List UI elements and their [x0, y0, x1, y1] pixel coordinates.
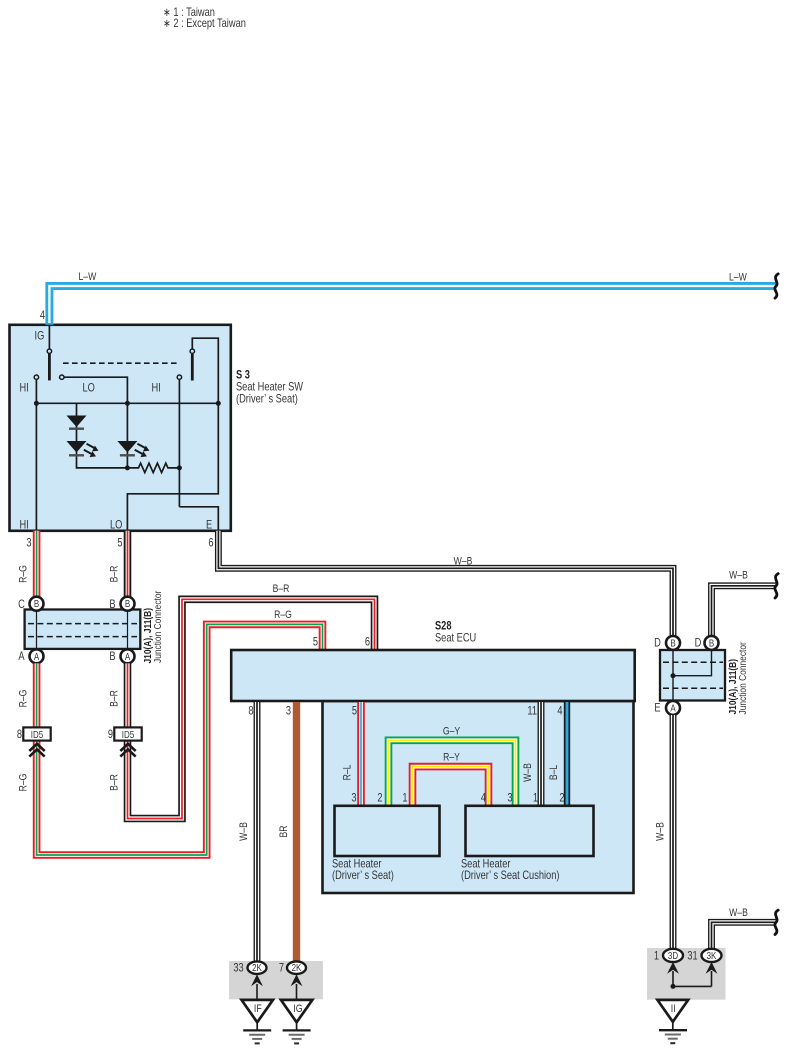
wire from right contact to E-column [192, 338, 218, 403]
pin circle B (B) [121, 597, 135, 611]
svg-text:W–B: W–B [729, 907, 748, 919]
svg-text:11: 11 [527, 705, 537, 718]
svg-text:LO: LO [110, 519, 122, 532]
svg-text:B–R: B–R [273, 583, 290, 595]
wire LO contact to LED2 column [64, 377, 127, 468]
svg-text:3: 3 [286, 705, 291, 718]
svg-text:3: 3 [351, 792, 356, 805]
IG switch blade [48, 354, 51, 381]
svg-text:R–G: R–G [18, 690, 30, 708]
wire R-G ID5 to ECU pin5 [37, 624, 323, 855]
chevron arrows below ID5 9 [120, 744, 135, 757]
ground symbol IF [243, 1022, 271, 1043]
node dot rail-E [216, 401, 221, 406]
svg-text:A: A [18, 650, 24, 663]
svg-text:D: D [695, 637, 702, 650]
wire W-B ECU pin11 to cushion pin1 [538, 702, 545, 806]
svg-text:6: 6 [365, 636, 370, 649]
connector oval 33 2K [248, 961, 267, 974]
svg-text:3D: 3D [668, 950, 679, 961]
svg-text:1: 1 [533, 792, 538, 805]
svg-text:B–R: B–R [109, 774, 121, 791]
wire W-B ECU pin8 to ground 2K [254, 702, 261, 962]
svg-text:2: 2 [559, 792, 564, 805]
ground symbol II [659, 1022, 687, 1043]
svg-text:G–Y: G–Y [443, 726, 461, 738]
svg-text:R–G: R–G [18, 565, 30, 583]
svg-text:ID5: ID5 [31, 729, 43, 740]
svg-text:4: 4 [40, 309, 45, 322]
break symbol W-B mid right [775, 574, 778, 598]
svg-text:3: 3 [26, 537, 31, 550]
pin circle D(B) 2 [705, 636, 719, 650]
right switch contact [190, 349, 194, 353]
svg-text:2K: 2K [292, 962, 302, 973]
svg-text:5: 5 [117, 537, 122, 550]
svg-text:3K: 3K [707, 950, 717, 961]
seat heater assembly box [323, 701, 634, 893]
svg-text:4: 4 [481, 792, 486, 805]
node dot rail-HI [34, 401, 39, 406]
svg-text:7: 7 [279, 962, 284, 975]
svg-text:II: II [671, 1003, 676, 1015]
svg-text:33: 33 [233, 962, 243, 975]
svg-text:(Driver’ s Seat): (Driver’ s Seat) [236, 393, 298, 406]
break symbol L-W right [775, 274, 778, 298]
arrow up left [256, 984, 258, 1000]
HI contact right [177, 375, 181, 379]
svg-text:HI: HI [20, 382, 29, 395]
diode D1 [67, 416, 87, 428]
svg-text:L–W: L–W [729, 272, 747, 284]
svg-text:W–B: W–B [238, 822, 250, 841]
svg-text:R–G: R–G [274, 609, 292, 621]
pin circle A (A) [30, 649, 44, 663]
svg-text:B: B [109, 598, 115, 611]
wire B-R junction A to ID5 [124, 663, 132, 727]
wire BR ECU pin3 to ground 2K [293, 702, 300, 962]
svg-text:B–R: B–R [109, 566, 121, 583]
svg-text:6: 6 [208, 537, 213, 550]
svg-text:B: B [109, 650, 115, 663]
svg-text:B: B [125, 598, 130, 609]
svg-text:IG: IG [35, 330, 45, 343]
svg-text:W–B: W–B [522, 763, 534, 782]
svg-text:2K: 2K [252, 962, 262, 973]
resistor R [127, 463, 179, 472]
pin circle D(B) 1 [666, 636, 680, 650]
ground triangle IG [281, 1000, 313, 1022]
wire HI contact down to pin 3 [35, 380, 37, 531]
mechanical link dashed line [63, 362, 177, 364]
connector oval 7 2K [287, 961, 306, 974]
svg-text:R–L: R–L [342, 764, 354, 780]
connector ID5 (8) [23, 727, 50, 740]
wire B-R pin5 to junction B [124, 531, 132, 597]
ground block left (gray) [229, 961, 323, 999]
svg-text:W–B: W–B [454, 556, 473, 568]
ground triangle IF [242, 1000, 274, 1022]
pin circle E(A) [666, 701, 680, 715]
node dot resistor-right [177, 465, 182, 470]
svg-text:B–L: B–L [548, 764, 560, 780]
svg-text:3: 3 [507, 792, 512, 805]
svg-text:4: 4 [557, 705, 562, 718]
wire R-G junction A to ID5 [33, 663, 41, 727]
svg-text:Junction Connector: Junction Connector [737, 642, 749, 714]
wire HI2 contact down [178, 380, 180, 507]
wire R-Y heater pin1 to cushion pin4 [413, 767, 489, 806]
wire W-B switch E to right junction D(B) [218, 531, 673, 636]
ground triangle II [657, 1000, 688, 1022]
svg-text:9: 9 [108, 728, 113, 741]
connector oval 1 3D [663, 949, 683, 962]
IG switch contact [47, 349, 51, 353]
node dot rail-LED2 [125, 401, 130, 406]
svg-text:Junction Connector: Junction Connector [152, 591, 164, 663]
svg-text:IG: IG [293, 1003, 302, 1015]
wire LED1 column [77, 403, 128, 468]
wire rail [36, 402, 218, 404]
pin circle B (C) [30, 597, 44, 611]
svg-text:C: C [18, 598, 25, 611]
ground symbol IG [283, 1022, 311, 1043]
svg-text:2: 2 [377, 792, 382, 805]
wire B-L ECU pin4 to cushion pin2 [564, 702, 570, 806]
svg-text:LO: LO [83, 382, 95, 395]
seat heater switch S3 box [10, 325, 231, 531]
connector oval 31 3K [702, 949, 722, 962]
svg-text:E: E [654, 702, 660, 715]
pin circle A (B) [121, 649, 135, 663]
svg-text:Seat ECU: Seat ECU [435, 632, 476, 645]
svg-text:8: 8 [248, 705, 253, 718]
svg-text:E: E [206, 519, 212, 532]
LO contact [60, 375, 64, 379]
LED 2 [117, 441, 137, 453]
svg-text:5: 5 [352, 705, 357, 718]
svg-text:31: 31 [687, 949, 697, 962]
chevron arrows below ID5 8 [29, 744, 44, 757]
svg-text:B: B [709, 638, 714, 649]
svg-text:D: D [654, 637, 661, 650]
svg-text:A: A [34, 651, 40, 662]
svg-text:IF: IF [254, 1003, 262, 1015]
svg-text:R–Y: R–Y [443, 752, 460, 764]
wire W-B ground 3K to break [712, 922, 776, 949]
svg-text:W–B: W–B [729, 570, 748, 582]
svg-text:B: B [34, 598, 39, 609]
svg-text:A: A [670, 703, 676, 714]
svg-text:BR: BR [278, 826, 290, 838]
svg-text:W–B: W–B [655, 822, 667, 841]
junction connector J10/J11 right box [660, 650, 725, 701]
ground block right (gray) [647, 948, 726, 1000]
wire to pin 5 LO [127, 403, 218, 531]
wire G-Y heater pin2 to cushion pin3 [389, 740, 516, 806]
svg-text:HI: HI [152, 382, 161, 395]
svg-text:5: 5 [313, 636, 318, 649]
svg-text:HI: HI [20, 519, 29, 532]
right switch blade [191, 354, 194, 381]
arrows up right block [672, 971, 674, 986]
junction connector J10/J11 left box [25, 610, 141, 649]
wire W-B right junction D(B)2 to break [712, 586, 776, 636]
wire to pin 6 E [179, 507, 218, 531]
svg-text:(Driver’ s Seat Cushion): (Driver’ s Seat Cushion) [461, 869, 559, 882]
wire R-G pin3 to junction B [33, 531, 41, 597]
svg-text:L–W: L–W [79, 271, 97, 283]
LED 1 [67, 441, 87, 453]
node dot LED junction [125, 465, 130, 470]
svg-text:R–G: R–G [18, 774, 30, 792]
wire pin4 to IG contact [48, 325, 50, 349]
svg-text:B–R: B–R [109, 690, 121, 707]
svg-text:1: 1 [402, 792, 407, 805]
svg-text:∗ 2 : Except Taiwan: ∗ 2 : Except Taiwan [163, 17, 246, 30]
wire L-W from pin 4 IG to right edge [49, 286, 775, 325]
svg-text:8: 8 [17, 728, 22, 741]
wire R-L ECU pin5 to heater pin3 [357, 702, 365, 806]
svg-text:1: 1 [654, 949, 659, 962]
HI contact left [34, 375, 38, 379]
wire W-B E(A) down to ground 3D [670, 715, 677, 949]
internal wire with node [672, 650, 674, 701]
svg-text:(Driver’ s Seat): (Driver’ s Seat) [332, 869, 394, 882]
wire B-R ID5 to ECU pin6 [128, 599, 375, 818]
svg-text:B: B [670, 638, 675, 649]
break symbol W-B bottom right [775, 910, 778, 934]
svg-text:A: A [125, 651, 131, 662]
svg-text:ID5: ID5 [122, 729, 134, 740]
S28 Seat ECU bar [231, 650, 635, 701]
seat heater (cushion) box [466, 806, 594, 856]
node dot and link [671, 984, 676, 989]
connector ID5 (9) [114, 727, 141, 740]
seat heater (driver's seat) box [335, 806, 440, 856]
